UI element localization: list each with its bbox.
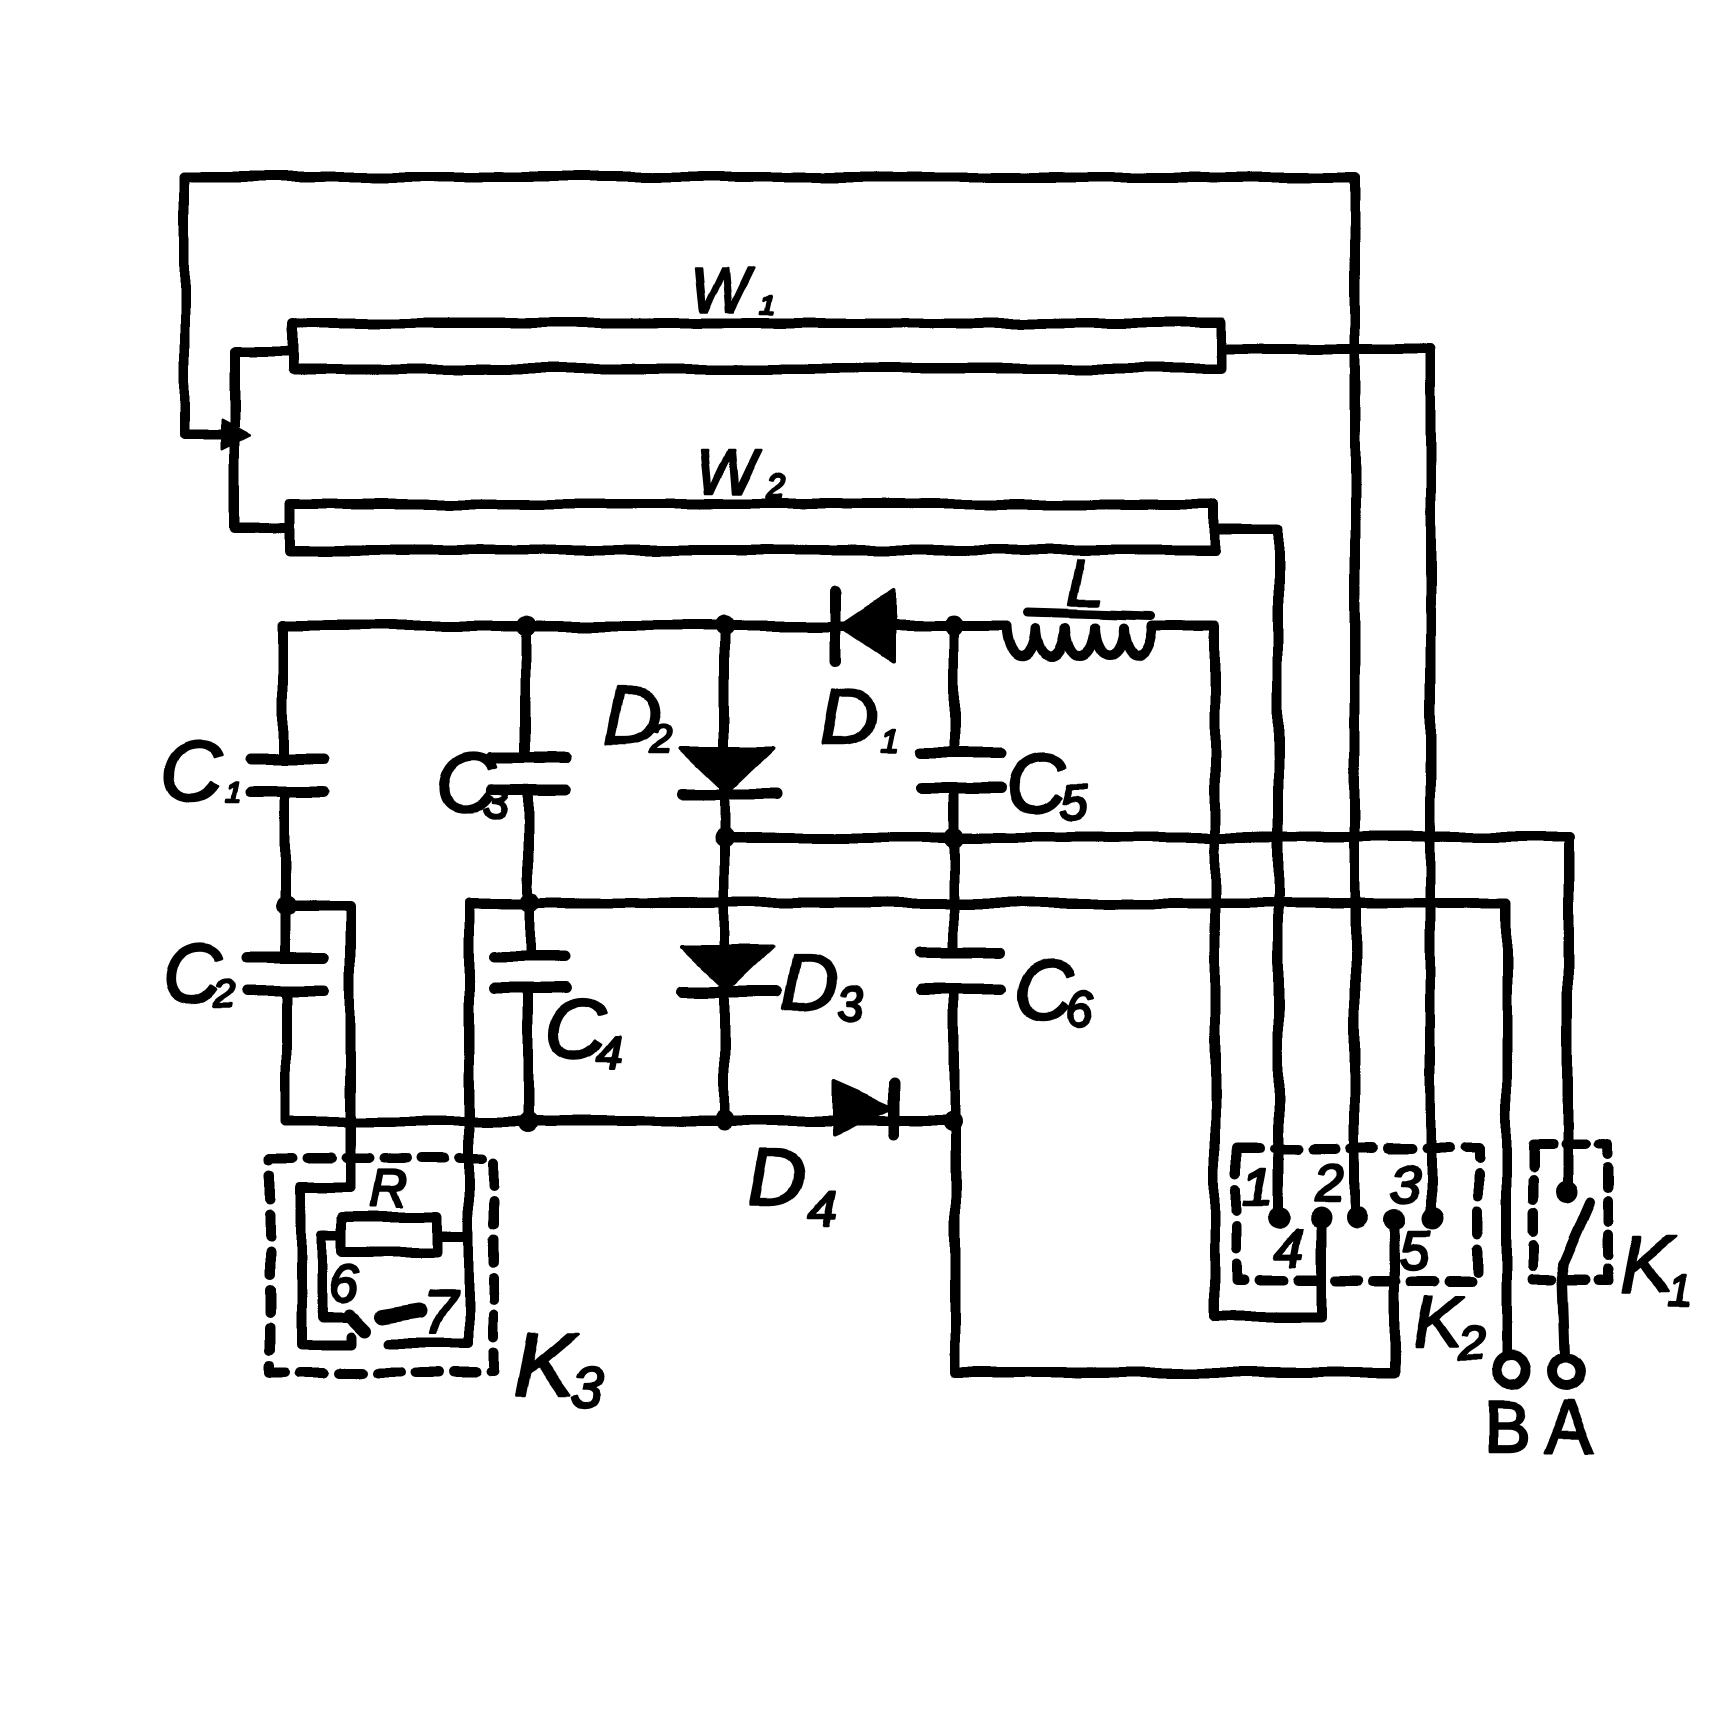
svg-text:C: C: [1006, 736, 1068, 830]
svg-text:W: W: [696, 436, 762, 508]
wire C3 bottom to C3-C4 node: [523, 790, 533, 902]
wire D4 node down and across to K2 terminal 5: [955, 1122, 1395, 1373]
svg-text:1: 1: [880, 722, 899, 760]
svg-text:4: 4: [596, 1026, 622, 1078]
node C1-C2 junction: [276, 896, 296, 916]
node C4 bottom junction: [518, 1112, 538, 1132]
wire inductor to right corner and down to K2 terminal 4: [1155, 626, 1321, 1317]
svg-text:D: D: [820, 673, 878, 762]
wire drop to terminal B: [1501, 903, 1511, 1356]
terminal B circle: [1496, 1356, 1526, 1386]
svg-text:D: D: [748, 1133, 806, 1222]
svg-text:C: C: [162, 724, 224, 818]
svg-text:2: 2: [765, 468, 785, 506]
svg-text:1: 1: [1243, 1157, 1273, 1217]
svg-text:A: A: [1544, 1385, 1595, 1470]
capacitor C1 plates: [250, 759, 324, 791]
svg-text:1: 1: [762, 289, 778, 320]
svg-text:7: 7: [422, 1279, 459, 1348]
svg-text:1: 1: [1668, 1267, 1692, 1316]
svg-text:5: 5: [1400, 1221, 1431, 1281]
wire W2 right terminal to K2 terminal 1: [1215, 529, 1278, 1210]
node D2 bottom junction: [714, 827, 734, 847]
wire top bus from C1 to inductor: [283, 621, 1008, 631]
svg-text:4: 4: [1274, 1219, 1304, 1279]
svg-text:6: 6: [329, 1254, 360, 1314]
svg-text:3: 3: [570, 1356, 602, 1421]
wire W1 right terminal to K2 terminal 3: [1222, 349, 1431, 1212]
capacitor C2 plates: [249, 957, 324, 990]
wire R right lead: [437, 1231, 467, 1241]
capacitor C6 top lead: [949, 837, 959, 952]
capacitor C4 plates: [494, 956, 566, 988]
svg-text:1: 1: [224, 776, 241, 809]
wire stub from C1-C2 node to K3 heater lead: [286, 901, 350, 911]
capacitor C1 top lead: [278, 626, 288, 758]
switch K1 fixed contact: [1556, 1181, 1578, 1203]
node C3 top junction: [516, 616, 536, 636]
wire K3 heater left lead (down into K3): [345, 907, 355, 1188]
diode D2 body: [681, 748, 773, 792]
wire branch down to W2 left terminal: [235, 434, 288, 528]
wire R left lead and contact 6 arm: [322, 1236, 355, 1318]
svg-text:W: W: [690, 254, 756, 326]
switch K1 lever: [1563, 1202, 1590, 1264]
terminal 1 of K2: [1268, 1207, 1290, 1229]
wire top feed line from left loop to K2 terminal 2: [184, 172, 1355, 182]
switch K1 dashed enclosure: [1533, 1145, 1608, 1279]
wire C4 bottom lead to bottom bus: [523, 988, 533, 1122]
diode D2 cathode bar: [682, 789, 776, 800]
svg-text:5: 5: [1060, 775, 1088, 831]
diode D2 branch wire: [719, 626, 729, 837]
wire C6 bottom lead to bottom bus: [949, 989, 959, 1121]
terminal 4 of K2: [1310, 1207, 1332, 1229]
inductor L coil: [1008, 626, 1155, 657]
terminal 3 of K2: [1422, 1208, 1444, 1230]
capacitor C5 plates: [921, 753, 1001, 788]
capacitor C3 plates: [492, 758, 566, 790]
capacitor C5 top lead: [949, 626, 959, 752]
wire K3 heater-side bracket: [301, 1188, 352, 1345]
diode D3 cathode bar: [682, 987, 776, 998]
diode D3 body: [681, 946, 773, 990]
contact 7 pad: [382, 1311, 420, 1317]
node left branch junction: [222, 420, 250, 449]
node C5 top junction: [944, 616, 964, 636]
wire second bus from K3 contact lead to terminal B: [469, 898, 1506, 908]
node C3-C4 junction: [520, 892, 540, 912]
svg-text:3: 3: [482, 776, 508, 828]
wire contact 7 bottom lead: [388, 1339, 469, 1349]
diode D4 cathode bar: [890, 1082, 901, 1134]
terminal A circle: [1553, 1357, 1581, 1385]
svg-text:L: L: [1066, 545, 1103, 619]
wire left outer vertical: [184, 177, 232, 434]
capacitor C3 top lead: [521, 626, 531, 757]
capacitor C6 plates: [921, 953, 1000, 989]
resistor R: [342, 1217, 437, 1252]
wire vertical from top feed line down to K2 terminal 2: [1350, 177, 1360, 1211]
diode D1 body: [841, 591, 893, 661]
wire C1 bottom to C2 top: [280, 791, 290, 957]
terminal 2 of K2: [1346, 1207, 1368, 1229]
svg-text:R: R: [370, 1161, 408, 1219]
capacitor C4 top lead: [525, 902, 535, 956]
svg-text:6: 6: [1066, 981, 1094, 1037]
svg-text:3: 3: [836, 978, 863, 1031]
wire bottom bus: [286, 1116, 952, 1126]
node D2 top junction: [714, 616, 734, 636]
svg-text:4: 4: [806, 1180, 835, 1238]
wire mid bus drop to K1 switch: [1563, 838, 1573, 1196]
svg-text:K: K: [514, 1316, 578, 1416]
wire C2 bottom lead to bottom bus: [281, 990, 291, 1121]
lamp W1: [293, 323, 1222, 369]
node D3 bottom junction: [714, 1110, 734, 1130]
svg-text:2: 2: [213, 971, 236, 1015]
wire K1 to terminal A: [1563, 1264, 1566, 1356]
lamp W2: [289, 504, 1215, 550]
wire K3 contact right lead (down into K3): [464, 903, 474, 1344]
diode D4 body: [834, 1082, 893, 1134]
contact 6 tip: [350, 1316, 365, 1331]
inductor L core bar: [1029, 612, 1152, 616]
svg-text:B: B: [1483, 1388, 1530, 1466]
diode D1 cathode bar: [831, 590, 842, 662]
wire branch up to W1 left terminal: [235, 352, 291, 434]
relay K3 dashed enclosure: [270, 1159, 494, 1373]
svg-text:D: D: [780, 938, 838, 1027]
svg-text:2: 2: [649, 717, 672, 761]
starter K2 dashed enclosure: [1237, 1148, 1478, 1281]
svg-text:2: 2: [1314, 1153, 1345, 1213]
terminal 5 of K2: [1384, 1209, 1406, 1231]
wire C5 bottom lead to mid bus: [949, 788, 959, 837]
svg-text:2: 2: [1457, 1318, 1485, 1371]
diode D3 branch wire: [719, 837, 729, 1120]
svg-text:3: 3: [1390, 1155, 1420, 1215]
wire mid bus from D2 bottom to K1: [724, 832, 1569, 842]
node D4 cathode junction: [942, 1112, 962, 1132]
node C5 bottom junction: [944, 827, 964, 847]
